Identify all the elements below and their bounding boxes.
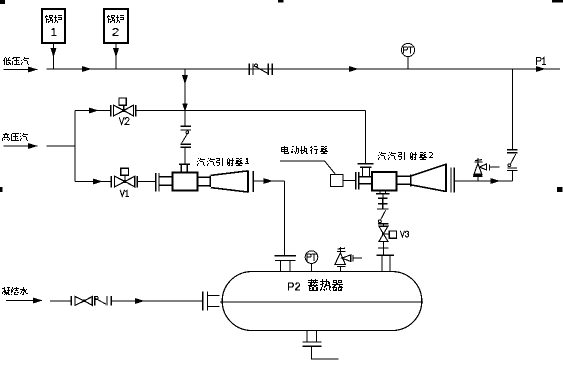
handle top-left — [0, 0, 5, 4]
ejector U1 outlet flange — [252, 171, 254, 192]
tank feed flange — [203, 291, 208, 310]
ejector U1 top nozzle — [179, 164, 190, 172]
valve V2 — [111, 98, 136, 116]
wire ejector2 outlet — [454, 180, 512, 182]
accumulator tank P2 — [222, 272, 422, 331]
label condensate — [2, 287, 28, 295]
ejector U1 throat pipe — [197, 175, 210, 187]
boiler 2 — [104, 9, 128, 43]
tank feed nozzle box — [207, 294, 219, 296]
ejector U2 body — [372, 172, 397, 190]
wire drop to ejector1 motive — [184, 69, 186, 126]
electric actuator box — [331, 175, 344, 187]
handle left-middle — [0, 187, 3, 192]
tank left head — [222, 272, 250, 331]
check valve on LP header — [249, 64, 272, 76]
handle top-middle — [278, 0, 284, 3]
valve V3 — [379, 226, 397, 241]
wire condensate to tank — [111, 300, 203, 302]
safety valve on tank — [335, 247, 362, 272]
valve V1 — [111, 168, 137, 187]
label actuator — [281, 146, 328, 154]
ejector U2 throat pipe — [397, 175, 411, 187]
handle top-right — [552, 0, 563, 3]
ejector U1 inlet flange — [156, 173, 159, 192]
tank charge nozzle — [275, 256, 297, 261]
ejector U1 inlet pipe — [159, 177, 173, 186]
flange below V3 — [378, 247, 389, 249]
condensate inlet stub — [6, 300, 41, 302]
label ejector1 — [197, 158, 249, 166]
wire ejector2 suction drop — [382, 194, 384, 198]
ejector U2 inlet pipe — [359, 177, 372, 184]
label ejector2 — [378, 152, 433, 160]
flange pair — [378, 198, 388, 209]
label LP steam — [3, 57, 29, 65]
HP riser — [74, 111, 76, 182]
tank drain nozzle — [306, 331, 308, 342]
V2 branch line — [75, 110, 111, 112]
condensate line — [50, 300, 71, 302]
LP steam header — [47, 68, 561, 70]
check valve on riser — [507, 150, 518, 171]
ejector U2 bottom nozzle — [379, 190, 381, 193]
ejector U2 diffuser cone — [411, 164, 446, 193]
wire actuator to ejector2 — [343, 180, 356, 182]
check valve above V3 — [377, 209, 389, 224]
handle right-middle — [557, 187, 563, 192]
ejector U2 outlet flange — [451, 168, 454, 193]
wire ejector1 outlet — [253, 180, 284, 182]
wire outlet riser — [511, 69, 513, 150]
label boiler2 — [107, 15, 124, 23]
ejector U2 motive nozzle — [362, 167, 364, 177]
ejector U2 inlet flange — [356, 172, 359, 189]
gate valve on condensate — [71, 296, 92, 306]
tank level line — [220, 301, 423, 303]
wire V2 to ejector2 motive — [135, 110, 365, 112]
drain pipe elbow — [312, 346, 339, 359]
safety valve on ejector2 outlet — [473, 158, 499, 181]
ejector U1 diffuser cone — [211, 170, 248, 192]
ejector U1 body — [173, 172, 198, 190]
label tank P2 — [288, 283, 300, 291]
label boiler1 — [45, 15, 62, 23]
PT instrument on tank — [305, 251, 318, 264]
wire boiler1 drop — [53, 43, 55, 69]
wire boiler2 drop — [115, 43, 117, 69]
HP steam line — [47, 145, 76, 147]
boiler box 1 — [42, 9, 65, 43]
HP steam inlet stub — [4, 145, 38, 147]
LP steam inlet stub — [4, 69, 38, 71]
node P1 — [537, 58, 546, 65]
tank discharge nozzle — [377, 254, 395, 256]
PT instrument circle — [401, 43, 414, 56]
label HP steam — [2, 133, 28, 141]
check valve on condensate — [95, 296, 111, 306]
ejector U2 motive flange pair — [358, 164, 374, 168]
V1 branch line — [75, 181, 111, 183]
check valve above ejector1 — [180, 126, 191, 147]
actuator leader line — [280, 161, 336, 175]
